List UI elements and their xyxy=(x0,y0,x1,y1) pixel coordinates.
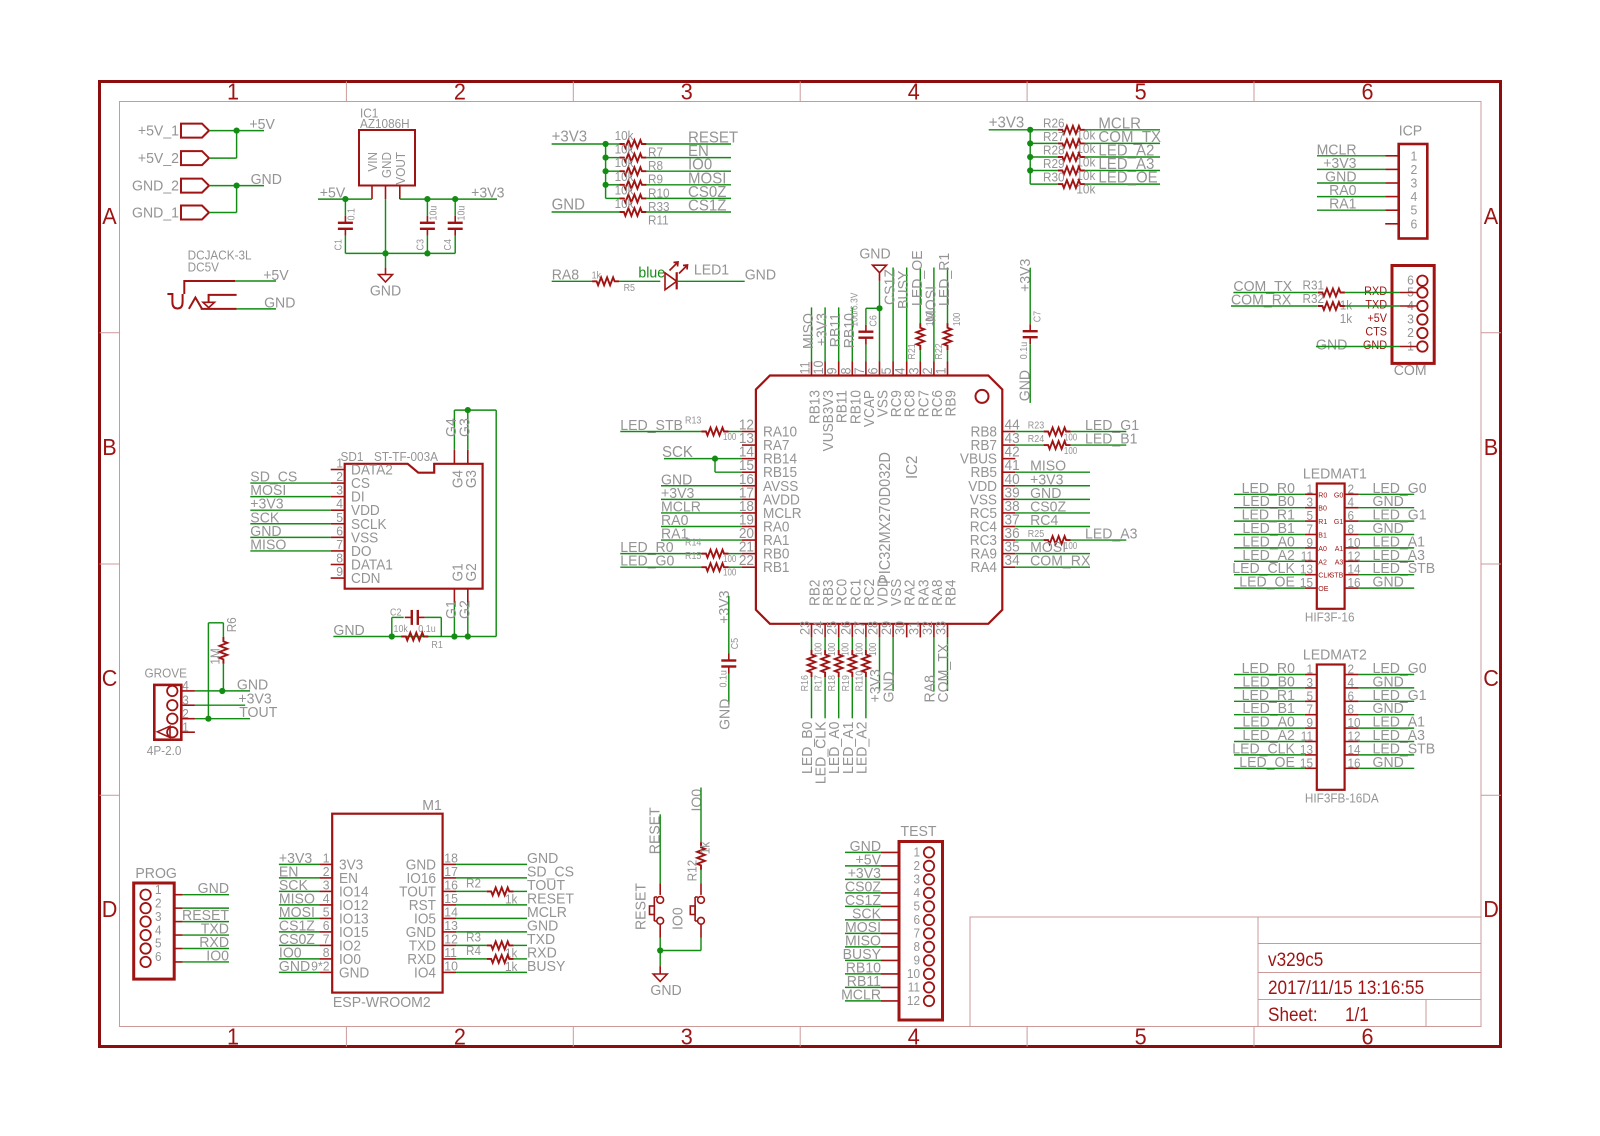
svg-text:1k: 1k xyxy=(698,841,712,854)
svg-text:B: B xyxy=(102,434,116,460)
svg-text:2017/11/15 13:16:55: 2017/11/15 13:16:55 xyxy=(1268,976,1424,998)
svg-text:6: 6 xyxy=(1348,509,1355,523)
svg-text:R110: R110 xyxy=(854,670,866,691)
svg-text:R2: R2 xyxy=(466,876,481,890)
svg-text:4: 4 xyxy=(1411,190,1418,204)
svg-text:IO0: IO0 xyxy=(670,907,686,930)
svg-text:TEST: TEST xyxy=(901,824,937,840)
svg-text:PIC32MX270D032D: PIC32MX270D032D xyxy=(877,452,895,584)
svg-text:7: 7 xyxy=(336,538,343,552)
svg-text:5: 5 xyxy=(336,510,343,524)
svg-text:R6: R6 xyxy=(225,617,239,632)
svg-text:2: 2 xyxy=(1407,326,1414,340)
svg-text:3: 3 xyxy=(323,878,330,892)
svg-text:CTS: CTS xyxy=(1365,326,1387,338)
svg-text:1k: 1k xyxy=(1340,312,1353,326)
svg-text:5: 5 xyxy=(1306,509,1313,523)
svg-text:R28: R28 xyxy=(1043,143,1065,157)
svg-text:1/1: 1/1 xyxy=(1345,1003,1369,1025)
svg-text:100: 100 xyxy=(723,431,736,442)
svg-text:10u: 10u xyxy=(428,206,440,221)
svg-text:10k: 10k xyxy=(615,183,635,197)
svg-text:6: 6 xyxy=(1411,217,1418,231)
svg-text:6: 6 xyxy=(1361,79,1373,105)
svg-text:R16: R16 xyxy=(799,675,811,691)
svg-text:8: 8 xyxy=(1348,522,1355,536)
svg-text:0.1u: 0.1u xyxy=(718,670,730,687)
svg-text:7: 7 xyxy=(1306,522,1313,536)
svg-text:6: 6 xyxy=(913,913,920,927)
svg-text:G3: G3 xyxy=(457,418,473,437)
svg-text:R5: R5 xyxy=(624,282,635,294)
svg-text:2: 2 xyxy=(1348,482,1355,496)
svg-text:11: 11 xyxy=(444,946,457,960)
svg-text:R14: R14 xyxy=(685,537,702,549)
svg-text:G0: G0 xyxy=(1334,490,1343,499)
svg-text:4P-2.0: 4P-2.0 xyxy=(147,744,182,758)
svg-text:100: 100 xyxy=(951,313,962,326)
svg-text:10k: 10k xyxy=(394,623,408,635)
svg-text:+5V: +5V xyxy=(263,268,289,284)
svg-text:GND: GND xyxy=(251,172,282,188)
svg-text:100: 100 xyxy=(853,643,864,656)
svg-text:10k: 10k xyxy=(615,169,635,183)
svg-text:+3V3: +3V3 xyxy=(989,114,1025,132)
svg-text:LEDMAT1: LEDMAT1 xyxy=(1303,466,1367,482)
svg-text:4: 4 xyxy=(908,79,920,105)
svg-text:2: 2 xyxy=(454,1024,466,1050)
svg-text:10u: 10u xyxy=(456,206,468,221)
svg-text:3: 3 xyxy=(1407,312,1414,326)
svg-text:+5V: +5V xyxy=(1367,313,1387,325)
svg-text:AZ1086H: AZ1086H xyxy=(360,117,410,131)
svg-text:10k: 10k xyxy=(1076,182,1096,196)
svg-text:3: 3 xyxy=(681,79,693,105)
svg-text:R18: R18 xyxy=(827,675,839,691)
svg-text:GND: GND xyxy=(380,152,394,178)
svg-text:GND_2: GND_2 xyxy=(132,178,179,194)
svg-text:9: 9 xyxy=(913,953,920,967)
svg-text:11: 11 xyxy=(908,980,920,994)
svg-text:+5V: +5V xyxy=(320,185,346,201)
svg-text:R15: R15 xyxy=(685,551,701,563)
svg-text:100: 100 xyxy=(813,643,824,656)
svg-text:RA1: RA1 xyxy=(1329,196,1356,212)
svg-text:R26: R26 xyxy=(1043,116,1065,130)
svg-text:GND: GND xyxy=(745,267,776,283)
svg-text:10: 10 xyxy=(444,959,458,973)
svg-text:VIN: VIN xyxy=(366,152,380,172)
svg-text:COM_RX: COM_RX xyxy=(1030,553,1091,569)
svg-text:3: 3 xyxy=(1306,495,1313,509)
svg-text:MCLR: MCLR xyxy=(841,987,881,1003)
svg-text:1: 1 xyxy=(227,1024,239,1050)
svg-text:HIF3F-16: HIF3F-16 xyxy=(1305,610,1355,624)
svg-text:blue: blue xyxy=(638,265,665,281)
svg-text:GROVE: GROVE xyxy=(145,666,187,680)
svg-text:4: 4 xyxy=(336,497,343,511)
svg-text:5: 5 xyxy=(155,936,162,950)
svg-text:+5V_2: +5V_2 xyxy=(138,151,179,167)
svg-text:R12: R12 xyxy=(685,860,699,882)
svg-text:G2: G2 xyxy=(457,600,473,619)
svg-text:5: 5 xyxy=(323,905,330,919)
svg-text:GND: GND xyxy=(279,959,310,975)
svg-text:10k: 10k xyxy=(615,142,635,156)
svg-text:LED_OE: LED_OE xyxy=(1239,754,1295,770)
svg-text:C4: C4 xyxy=(442,239,454,251)
svg-text:1: 1 xyxy=(227,79,239,105)
svg-text:4: 4 xyxy=(1348,676,1355,690)
svg-text:GND: GND xyxy=(650,983,681,999)
svg-text:1: 1 xyxy=(1306,482,1313,496)
svg-text:HIF3FB-16DA: HIF3FB-16DA xyxy=(1305,791,1380,805)
svg-text:100: 100 xyxy=(723,553,736,564)
svg-text:4: 4 xyxy=(182,679,189,693)
svg-text:R3: R3 xyxy=(466,930,481,944)
svg-text:COM: COM xyxy=(1394,363,1427,379)
svg-text:RESET: RESET xyxy=(633,883,649,930)
svg-text:1: 1 xyxy=(323,851,330,865)
svg-text:2: 2 xyxy=(323,865,330,879)
svg-text:OE: OE xyxy=(1318,584,1328,593)
svg-text:12: 12 xyxy=(907,994,920,1008)
svg-text:DC5V: DC5V xyxy=(188,260,220,274)
svg-text:RA8: RA8 xyxy=(552,267,579,283)
svg-text:RB4: RB4 xyxy=(942,579,958,606)
svg-text:R1: R1 xyxy=(1318,517,1327,526)
svg-text:LED_A2: LED_A2 xyxy=(854,722,870,774)
svg-text:4: 4 xyxy=(1348,495,1355,509)
svg-text:G2: G2 xyxy=(462,563,478,581)
svg-text:A0: A0 xyxy=(1318,544,1327,553)
svg-text:1M: 1M xyxy=(208,648,222,664)
svg-text:+5V_1: +5V_1 xyxy=(138,123,179,139)
svg-text:10u/6.3V: 10u/6.3V xyxy=(849,292,860,327)
svg-text:A3: A3 xyxy=(1335,557,1344,566)
svg-text:G1: G1 xyxy=(1334,517,1343,526)
svg-text:1: 1 xyxy=(933,367,948,374)
svg-text:R1: R1 xyxy=(431,639,442,651)
svg-text:100: 100 xyxy=(826,643,837,656)
svg-text:C3: C3 xyxy=(415,239,427,250)
svg-text:R17: R17 xyxy=(813,675,825,691)
svg-text:2: 2 xyxy=(454,79,466,105)
svg-text:TOUT: TOUT xyxy=(239,705,277,721)
svg-text:GND: GND xyxy=(552,196,585,214)
svg-text:G3: G3 xyxy=(462,470,478,488)
svg-text:LED1: LED1 xyxy=(694,262,729,278)
svg-text:GND: GND xyxy=(1316,337,1347,353)
svg-text:10k: 10k xyxy=(615,156,635,170)
svg-text:8: 8 xyxy=(913,940,920,954)
svg-text:5: 5 xyxy=(1411,203,1418,217)
svg-text:PROG: PROG xyxy=(135,866,176,882)
svg-text:14: 14 xyxy=(444,905,458,919)
svg-text:B1: B1 xyxy=(1318,530,1327,539)
svg-text:+3V3: +3V3 xyxy=(471,185,504,201)
svg-text:MISO: MISO xyxy=(250,537,286,553)
svg-text:GND: GND xyxy=(339,964,369,980)
svg-text:C7: C7 xyxy=(1032,311,1044,322)
svg-text:1: 1 xyxy=(182,720,189,734)
svg-text:R27: R27 xyxy=(1043,130,1065,144)
svg-text:2: 2 xyxy=(1348,662,1355,676)
svg-text:7: 7 xyxy=(1306,702,1313,716)
svg-text:1: 1 xyxy=(336,456,343,470)
svg-text:R30: R30 xyxy=(1043,170,1065,184)
svg-text:RESET: RESET xyxy=(647,807,663,854)
svg-text:GND_1: GND_1 xyxy=(132,205,179,221)
svg-text:D: D xyxy=(102,896,118,922)
svg-text:R13: R13 xyxy=(685,415,701,427)
svg-text:ESP-WROOM2: ESP-WROOM2 xyxy=(333,995,431,1011)
svg-text:R24: R24 xyxy=(1028,433,1045,445)
svg-text:BUSY: BUSY xyxy=(527,959,566,975)
svg-text:LED_OE: LED_OE xyxy=(1239,574,1295,590)
svg-text:+3V3: +3V3 xyxy=(717,590,733,623)
svg-text:7: 7 xyxy=(913,926,920,940)
svg-text:15: 15 xyxy=(444,892,458,906)
svg-text:LED_A3: LED_A3 xyxy=(1085,526,1137,542)
svg-text:RC4: RC4 xyxy=(1030,513,1058,529)
svg-text:B0: B0 xyxy=(1318,503,1327,512)
svg-text:6: 6 xyxy=(1361,1024,1373,1050)
svg-text:100: 100 xyxy=(1064,445,1077,456)
svg-text:8: 8 xyxy=(336,551,343,565)
svg-text:LED_R1: LED_R1 xyxy=(937,253,953,306)
svg-text:C5: C5 xyxy=(730,638,742,649)
svg-text:3: 3 xyxy=(1306,676,1313,690)
svg-text:6: 6 xyxy=(336,524,343,538)
svg-text:3: 3 xyxy=(1411,176,1418,190)
svg-text:9: 9 xyxy=(1306,716,1313,730)
svg-text:GND: GND xyxy=(717,699,733,730)
svg-text:LED_OE: LED_OE xyxy=(909,250,925,306)
svg-text:100: 100 xyxy=(867,643,878,656)
svg-text:1: 1 xyxy=(1411,149,1418,163)
svg-text:A2: A2 xyxy=(1318,557,1327,566)
svg-text:1: 1 xyxy=(1306,662,1313,676)
svg-text:GND: GND xyxy=(859,246,890,262)
svg-text:9*2: 9*2 xyxy=(311,959,329,973)
svg-text:R21: R21 xyxy=(906,343,918,359)
svg-text:12: 12 xyxy=(444,932,458,946)
svg-text:R32: R32 xyxy=(1303,292,1325,306)
svg-text:R22: R22 xyxy=(933,343,945,359)
svg-text:IC2: IC2 xyxy=(904,456,922,479)
svg-text:IO0: IO0 xyxy=(689,789,705,812)
svg-text:C1: C1 xyxy=(333,239,345,250)
svg-text:3: 3 xyxy=(182,693,189,707)
svg-text:+5V: +5V xyxy=(249,117,275,133)
svg-text:3: 3 xyxy=(155,909,162,923)
svg-text:IO4: IO4 xyxy=(414,964,436,980)
svg-text:100: 100 xyxy=(723,567,736,578)
svg-text:GND: GND xyxy=(1017,370,1033,401)
svg-text:8: 8 xyxy=(1348,702,1355,716)
svg-text:v329c5: v329c5 xyxy=(1268,948,1323,970)
svg-text:2: 2 xyxy=(1411,163,1418,177)
svg-text:17: 17 xyxy=(444,865,458,879)
svg-text:6: 6 xyxy=(323,919,330,933)
svg-text:9: 9 xyxy=(1306,536,1313,550)
svg-text:0.1: 0.1 xyxy=(346,208,358,220)
svg-text:1: 1 xyxy=(913,845,920,859)
svg-text:4: 4 xyxy=(323,892,330,906)
svg-text:100: 100 xyxy=(924,313,935,326)
svg-text:8: 8 xyxy=(323,946,330,960)
svg-text:A: A xyxy=(1484,203,1499,229)
svg-text:STB: STB xyxy=(1330,570,1344,579)
svg-text:R19: R19 xyxy=(840,675,852,691)
svg-text:0.1u: 0.1u xyxy=(418,623,435,635)
svg-text:R11: R11 xyxy=(648,213,669,227)
svg-text:COM_TX: COM_TX xyxy=(936,643,952,702)
svg-text:LEDMAT2: LEDMAT2 xyxy=(1303,647,1367,663)
svg-text:C2: C2 xyxy=(390,607,401,619)
svg-text:ICP: ICP xyxy=(1399,123,1422,139)
svg-text:GND: GND xyxy=(1373,754,1404,770)
svg-text:4: 4 xyxy=(908,1024,920,1050)
svg-text:5: 5 xyxy=(1135,1024,1147,1050)
svg-text:100: 100 xyxy=(840,643,851,656)
svg-text:10k: 10k xyxy=(615,197,635,211)
svg-text:3: 3 xyxy=(336,483,343,497)
svg-text:10: 10 xyxy=(907,967,920,981)
svg-text:GND: GND xyxy=(198,881,229,897)
svg-text:GND: GND xyxy=(1373,574,1404,590)
svg-text:R23: R23 xyxy=(1028,420,1044,432)
svg-text:10k: 10k xyxy=(615,129,635,143)
svg-text:2: 2 xyxy=(336,470,343,484)
svg-text:4: 4 xyxy=(913,886,920,900)
svg-text:R0: R0 xyxy=(1318,490,1327,499)
svg-text:2: 2 xyxy=(182,707,189,721)
svg-text:R29: R29 xyxy=(1043,157,1065,171)
svg-text:A1: A1 xyxy=(1335,544,1344,553)
svg-text:13: 13 xyxy=(444,919,458,933)
svg-text:R31: R31 xyxy=(1303,278,1325,292)
svg-text:C6: C6 xyxy=(868,315,880,326)
svg-text:C: C xyxy=(102,665,118,691)
svg-text:33: 33 xyxy=(933,621,948,635)
svg-text:GND: GND xyxy=(881,671,897,702)
svg-text:M1: M1 xyxy=(422,798,442,814)
svg-text:VOUT: VOUT xyxy=(394,151,408,184)
svg-text:3: 3 xyxy=(913,872,920,886)
svg-text:+3V3: +3V3 xyxy=(1017,259,1033,292)
svg-text:B: B xyxy=(1484,434,1498,460)
svg-text:0.1u: 0.1u xyxy=(1018,342,1030,359)
svg-text:GND: GND xyxy=(370,283,401,299)
svg-text:5: 5 xyxy=(913,899,920,913)
svg-text:RA4: RA4 xyxy=(970,559,997,575)
svg-text:RB1: RB1 xyxy=(763,559,790,575)
svg-text:Sheet:: Sheet: xyxy=(1268,1003,1318,1025)
svg-text:D: D xyxy=(1483,896,1499,922)
svg-text:5: 5 xyxy=(1135,79,1147,105)
svg-text:CDN: CDN xyxy=(351,570,381,586)
svg-text:9: 9 xyxy=(336,565,343,579)
svg-text:6: 6 xyxy=(1348,689,1355,703)
svg-text:LED_OE: LED_OE xyxy=(1098,169,1157,187)
svg-text:5: 5 xyxy=(1306,689,1313,703)
svg-text:RB9: RB9 xyxy=(942,390,958,417)
svg-text:100: 100 xyxy=(1064,432,1077,443)
svg-text:16: 16 xyxy=(444,878,458,892)
svg-text:2: 2 xyxy=(913,859,920,873)
svg-text:18: 18 xyxy=(444,851,458,865)
svg-text:6: 6 xyxy=(155,950,162,964)
svg-text:CS1Z: CS1Z xyxy=(688,197,726,215)
svg-text:LED_B1: LED_B1 xyxy=(1085,431,1137,447)
svg-text:GND: GND xyxy=(264,295,295,311)
svg-text:C: C xyxy=(1483,665,1499,691)
svg-text:2: 2 xyxy=(155,896,162,910)
svg-text:IO0: IO0 xyxy=(206,948,229,964)
svg-text:7: 7 xyxy=(323,932,330,946)
svg-text:A: A xyxy=(102,203,117,229)
svg-text:R25: R25 xyxy=(1028,528,1044,540)
svg-text:3: 3 xyxy=(681,1024,693,1050)
svg-text:4: 4 xyxy=(155,923,162,937)
svg-text:1: 1 xyxy=(155,883,162,897)
svg-text:+3V3: +3V3 xyxy=(552,128,588,146)
svg-text:R4: R4 xyxy=(466,944,481,958)
